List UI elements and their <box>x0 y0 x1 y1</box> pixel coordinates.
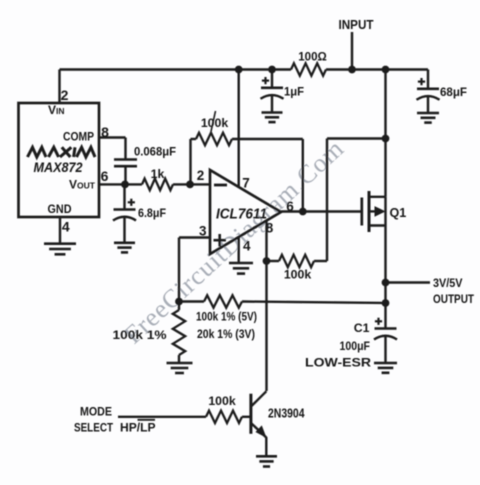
svg-text:MAX872: MAX872 <box>34 160 83 175</box>
ground 6.8uF <box>114 243 135 253</box>
svg-text:COMP: COMP <box>63 130 94 144</box>
svg-text:2: 2 <box>197 168 205 183</box>
svg-text:Q1: Q1 <box>390 206 407 220</box>
label Q1 <box>390 206 407 220</box>
wire mode select line <box>118 416 206 418</box>
svg-text:100k 1% (5V): 100k 1% (5V) <box>196 310 257 324</box>
pin number 7 op-amp <box>242 176 250 191</box>
IC MAX872 body <box>19 103 100 217</box>
svg-text:100Ω: 100Ω <box>298 50 327 64</box>
svg-text:2N3904: 2N3904 <box>268 405 305 420</box>
svg-text:100k: 100k <box>284 268 312 282</box>
svg-text:4: 4 <box>62 219 70 235</box>
wire feedback right <box>232 139 303 212</box>
node C1 junction <box>382 300 389 307</box>
capacitor 0.068uF <box>114 160 137 185</box>
capacitor 1uF <box>261 70 284 113</box>
svg-text:OUTPUT: OUTPUT <box>433 292 474 306</box>
resistor 100k pin8 <box>279 255 314 267</box>
pin number 6 op-amp <box>286 199 294 214</box>
wire Q1 drain vertical <box>384 70 386 197</box>
wire pin8 resistor left <box>267 260 280 262</box>
resistor 100k base <box>206 411 242 423</box>
label OUTPUT <box>433 292 474 306</box>
label 100k 1% <box>113 328 167 342</box>
pin number 4 op-amp <box>243 239 251 254</box>
label MODE <box>80 405 112 419</box>
label 6.8uF <box>138 206 166 220</box>
wire INPUT drop <box>351 32 353 70</box>
node rail-1uF junction <box>269 66 276 73</box>
label 2N3904 <box>268 405 305 420</box>
label MAX872 <box>34 160 83 175</box>
svg-text:7: 7 <box>242 176 250 191</box>
label 0.068uF <box>134 144 176 158</box>
label 3V/5V <box>433 276 463 290</box>
label INPUT <box>339 18 374 32</box>
label 100k feedback <box>201 116 229 130</box>
pin number 2 op-amp <box>197 168 205 183</box>
svg-text:LOW-ESR: LOW-ESR <box>305 356 371 370</box>
svg-text:1μF: 1μF <box>284 85 304 99</box>
wire pin8 drop <box>265 221 267 391</box>
label 68uF <box>440 85 467 99</box>
label GND <box>48 202 72 216</box>
label VOUT <box>69 178 96 192</box>
node rail-INPUT junction <box>349 66 356 73</box>
ground 2N3904 emitter <box>256 456 277 466</box>
capacitor C1 100uF <box>374 303 397 363</box>
svg-text:VIN: VIN <box>48 103 65 117</box>
wire VOUT line <box>99 183 210 185</box>
ground C1 <box>374 363 397 373</box>
svg-text:ICL7611: ICL7611 <box>216 206 267 222</box>
ground 1uF <box>262 113 283 123</box>
label 1k <box>151 167 165 181</box>
label 100k pin8 <box>284 268 312 282</box>
svg-text:C1: C1 <box>354 321 370 335</box>
svg-text:100k: 100k <box>208 394 236 408</box>
pin number 2 MAX872 <box>61 87 69 103</box>
svg-text:MODE: MODE <box>80 405 112 419</box>
watermark FreeCircuitDiagram.Com <box>118 134 349 350</box>
svg-text:100μF: 100μF <box>340 339 371 353</box>
op-amp minus input mark <box>214 184 227 187</box>
label 100k base <box>208 394 236 408</box>
svg-text:3: 3 <box>199 224 207 239</box>
wire pin8 resistor right <box>314 139 386 262</box>
resistor 1k <box>142 179 173 191</box>
node divider junction <box>176 298 183 305</box>
wire Q1 source vertical <box>384 197 386 303</box>
label 100ohm <box>298 50 327 64</box>
logo MAXIM <box>28 147 96 157</box>
node VOUT junction <box>122 181 129 188</box>
label 100k 1% (5V) <box>196 310 257 324</box>
label SELECT <box>74 421 113 435</box>
transistor Q1 MOSFET <box>362 191 386 232</box>
svg-text:20k 1% (3V): 20k 1% (3V) <box>197 327 255 341</box>
resistor 100k 1% lower <box>173 302 185 363</box>
wire pin7 supply <box>237 70 239 188</box>
ground op-amp pin4 <box>229 263 253 274</box>
node rail-Q1 junction <box>382 66 389 73</box>
pin number 6 MAX872 <box>101 168 109 184</box>
wire divider left <box>179 300 204 302</box>
resistor 100k 1% (5V) / 20k 1% (3V) <box>204 295 242 307</box>
resistor 100ohm <box>291 63 326 75</box>
ground MAX872 pin4 <box>44 244 76 255</box>
svg-text:68μF: 68μF <box>440 85 467 99</box>
capacitor 68uF <box>417 70 440 113</box>
wire pin2 VIN drop <box>58 70 60 104</box>
wire pin4 GND drop <box>59 217 61 244</box>
label LOW-ESR <box>305 356 371 370</box>
node pin8 junction <box>263 258 270 265</box>
wire pin4 ground drop <box>237 237 239 263</box>
node output junction <box>299 208 306 215</box>
label COMP <box>63 130 94 144</box>
svg-text:INPUT: INPUT <box>339 18 374 32</box>
wire output stub <box>386 281 431 283</box>
node rail-feedback junction <box>382 135 389 142</box>
node output-wire junction <box>382 279 389 286</box>
pin number 4 MAX872 <box>62 219 70 235</box>
wire top supply rail <box>60 68 429 70</box>
wire COMP stub <box>99 138 126 159</box>
op-amp U1 ICL7611 <box>210 170 281 254</box>
svg-text:3V/5V: 3V/5V <box>433 276 463 290</box>
pin number 8 MAX872 <box>101 124 109 140</box>
label HP/LP <box>120 420 156 435</box>
pin number 3 op-amp <box>199 224 207 239</box>
svg-text:4: 4 <box>243 239 251 254</box>
label 1uF <box>284 85 304 99</box>
wire pin6 output <box>281 210 362 212</box>
op-amp plus input mark <box>214 234 226 246</box>
label C1 <box>354 321 370 335</box>
transistor Q2 2N3904 <box>242 391 266 456</box>
svg-text:VOUT: VOUT <box>69 178 96 192</box>
wire pin3 input <box>179 238 210 302</box>
resistor 100k feedback <box>196 133 232 145</box>
svg-text:HP/LP: HP/LP <box>120 421 156 435</box>
node pin2 junction <box>187 181 194 188</box>
svg-text:6.8μF: 6.8μF <box>138 206 166 220</box>
label VIN <box>48 103 65 117</box>
svg-text:100k 1%: 100k 1% <box>113 328 167 342</box>
svg-text:6: 6 <box>101 168 109 184</box>
pin number 8 op-amp <box>266 221 274 236</box>
label 100uF <box>340 339 371 353</box>
wire feedback left <box>191 139 197 184</box>
svg-text:0.068μF: 0.068μF <box>134 144 176 158</box>
wire divider right <box>242 302 386 304</box>
label ICL7611 <box>216 206 267 222</box>
node rail-pin7 junction <box>235 66 242 73</box>
svg-text:SELECT: SELECT <box>74 421 113 435</box>
svg-text:GND: GND <box>48 202 72 216</box>
stray slash mark <box>211 111 216 132</box>
svg-text:2: 2 <box>61 87 69 103</box>
ground 68uF <box>417 113 439 123</box>
label 20k 1% (3V) <box>197 327 255 341</box>
svg-text:1k: 1k <box>151 167 165 181</box>
ground divider <box>167 363 193 373</box>
capacitor 6.8uF <box>113 184 136 242</box>
